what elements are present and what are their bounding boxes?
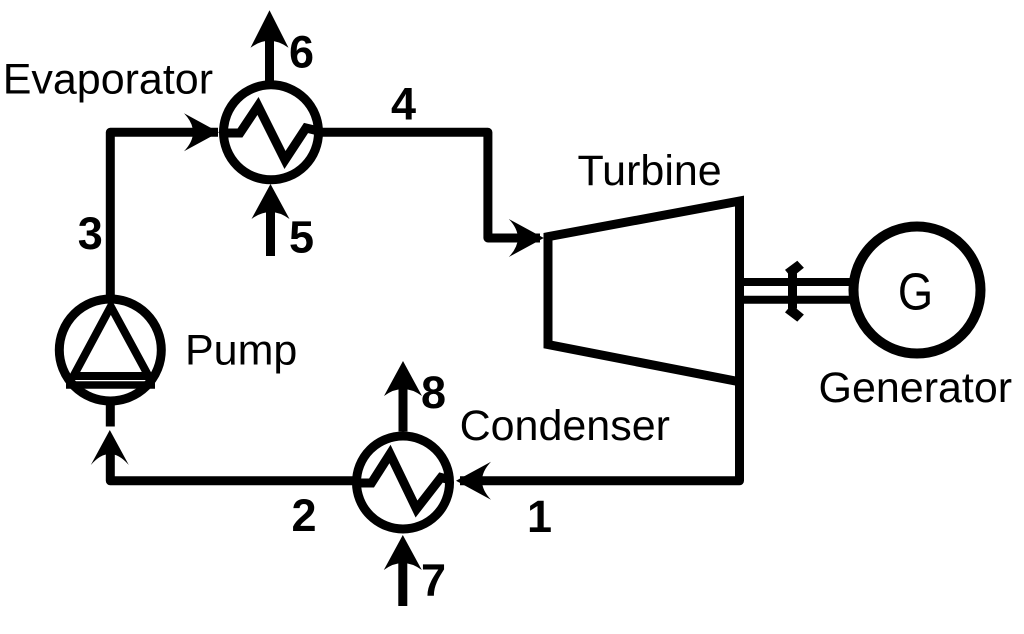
svg-text:G: G — [898, 264, 933, 321]
arrowhead into turbine (stream 4) — [509, 219, 544, 257]
condenser zigzag — [357, 454, 453, 509]
shaft rotation arrow trunk — [788, 274, 797, 309]
wire stream 1: turbine outlet to condenser inlet — [460, 382, 740, 481]
svg-text:8: 8 — [421, 367, 446, 418]
pump triangle — [74, 307, 149, 377]
turbine trapezoid — [548, 201, 740, 382]
svg-text:4: 4 — [391, 78, 416, 129]
pump chord line — [66, 381, 155, 389]
svg-text:6: 6 — [289, 27, 314, 78]
evaporator hot stream in line (5) — [266, 206, 275, 256]
condenser cooling in line (7) — [398, 557, 407, 606]
svg-text:Condenser: Condenser — [460, 402, 670, 450]
condenser cooling out line (8) — [399, 383, 408, 432]
wire stream 3: pump top to evaporator inlet — [110, 132, 218, 300]
svg-text:Turbine: Turbine — [578, 147, 722, 195]
shaft rotation arrow bottom head — [785, 305, 804, 322]
arrowhead stream 5 up — [252, 184, 290, 219]
arrowhead stream 6 up — [251, 10, 289, 48]
pump circle — [59, 299, 161, 401]
arrowhead into evaporator (stream 3) — [184, 113, 219, 151]
svg-text:Pump: Pump — [185, 327, 297, 375]
arrowhead stream 8 up — [384, 361, 422, 396]
shaft upper line — [744, 278, 853, 286]
condenser circle — [357, 436, 450, 529]
svg-text:2: 2 — [292, 490, 317, 541]
pump inlet stub below pump — [106, 400, 115, 427]
evaporator circle — [224, 85, 319, 180]
svg-text:5: 5 — [289, 212, 314, 263]
svg-text:7: 7 — [421, 555, 446, 606]
wire stream 2: condenser outlet to pump inlet — [110, 452, 357, 481]
svg-text:Generator: Generator — [819, 364, 1013, 412]
evaporator zigzag — [224, 106, 319, 160]
shaft rotation arrow top head — [785, 261, 804, 278]
shaft lower line — [744, 296, 853, 304]
svg-text:Evaporator: Evaporator — [3, 56, 213, 104]
svg-text:1: 1 — [527, 491, 552, 542]
svg-text:3: 3 — [78, 208, 103, 259]
wire stream 4: evaporator outlet to turbine inlet — [318, 132, 540, 238]
generator circle — [854, 227, 981, 354]
arrowhead stream 7 up — [384, 535, 422, 570]
arrowhead into condenser (stream 1) — [456, 462, 491, 500]
evaporator hot stream out line (6) — [265, 36, 274, 86]
arrowhead into pump (stream 2) — [91, 430, 129, 465]
